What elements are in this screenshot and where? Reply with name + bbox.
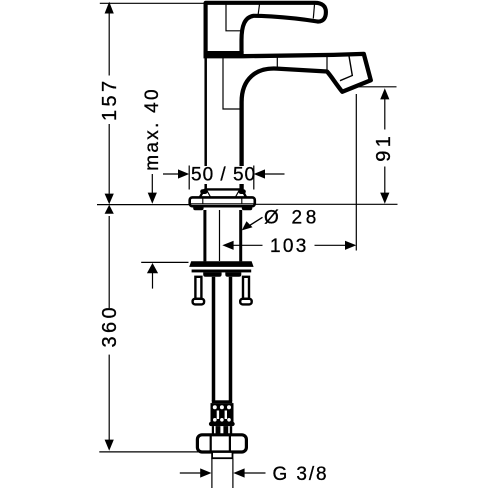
- spout tip ext line: [355, 94, 357, 251]
- escutcheon: [190, 197, 255, 206]
- svg-text:50 / 50: 50 / 50: [191, 165, 256, 186]
- dim 91 top tick: [357, 86, 397, 88]
- dim 91 bottom arrow: [380, 193, 389, 204]
- dim 50/50 right arrow: [264, 173, 285, 175]
- handle inner step vertical: [226, 5, 241, 31]
- svg-text:157: 157: [99, 77, 121, 121]
- dim 157 bottom arrow: [105, 194, 114, 205]
- stub ext line left: [211, 459, 213, 488]
- nut face lines: [210, 436, 212, 452]
- dim 360 line lower: [108, 355, 110, 440]
- dim 157 top arrow: [105, 2, 114, 14]
- spout tip inner line: [340, 56, 352, 81]
- under-counter arrow: [147, 263, 158, 273]
- escutcheon right tab: [242, 206, 253, 210]
- escutcheon left tab: [193, 206, 203, 210]
- deck left tick line: [141, 261, 188, 263]
- fitting band: [212, 400, 232, 403]
- counter line right: [255, 203, 398, 205]
- escutcheon inner lines: [191, 203, 254, 205]
- dim 91 top arrow: [380, 88, 389, 99]
- stud right foot: [240, 299, 252, 305]
- body cap bar: [204, 51, 244, 58]
- supply pipe left wall: [212, 277, 216, 401]
- svg-text:G 3/8: G 3/8: [273, 464, 329, 485]
- svg-text:360: 360: [99, 304, 121, 348]
- shank centerline: [219, 210, 221, 261]
- handle outline: [206, 3, 326, 56]
- spout thin vertical 2: [326, 57, 328, 72]
- dim 360 line upper: [108, 216, 110, 308]
- dia 28 leader: [244, 217, 262, 229]
- dim 103 left arrow: [222, 241, 233, 250]
- lower fitting: [212, 426, 232, 435]
- max40 arrow: [148, 193, 157, 204]
- dim 103 right arrow: [315, 244, 347, 246]
- G38 left arrow: [180, 472, 201, 474]
- body column right edge: [240, 102, 243, 190]
- svg-text:103: 103: [270, 236, 309, 257]
- shank right edge: [239, 210, 242, 261]
- bottom ref line: [99, 451, 204, 453]
- 50/50 text background: [191, 166, 253, 184]
- flange foot inner slants: [207, 191, 211, 198]
- stud right: [243, 277, 249, 299]
- dim 360 top arrow: [105, 205, 114, 214]
- stud left foot: [193, 299, 205, 305]
- spout outline: [242, 54, 371, 190]
- counter line left: [97, 204, 189, 206]
- knurl section: [211, 403, 234, 422]
- max40 arrow line: [151, 174, 153, 194]
- stud left: [195, 277, 201, 299]
- svg-text:max. 40: max. 40: [142, 87, 163, 171]
- 50/50 ext line left: [188, 166, 190, 190]
- flange foot trapezoid: [200, 189, 246, 197]
- body inner step: [223, 58, 240, 109]
- stub: [212, 452, 232, 458]
- shank left edge: [203, 210, 206, 261]
- dim 360 bottom arrow: [105, 440, 114, 451]
- deck second bar: [192, 270, 252, 273]
- stub ext line right: [232, 459, 234, 488]
- deck rubber foot left: [203, 272, 221, 276]
- dim 157 top tick line: [100, 2, 204, 4]
- spout thin vertical 1: [276, 58, 278, 69]
- flange shoulder knobs: [203, 189, 206, 194]
- svg-text:Ø 28: Ø 28: [264, 208, 320, 229]
- 50/50 ext line right: [253, 166, 255, 190]
- svg-text:91: 91: [373, 133, 395, 162]
- dim 157 line upper: [108, 13, 110, 76]
- bulge ring: [209, 422, 235, 426]
- supply pipe right wall: [229, 277, 233, 401]
- dim 157 line lower: [108, 124, 110, 194]
- deck rubber foot right: [225, 272, 241, 276]
- body column left edge: [204, 57, 207, 190]
- handle panel line left: [258, 4, 260, 15]
- nut G3/8: [197, 435, 246, 452]
- dim 50/50 left arrow: [163, 173, 180, 175]
- G38 right arrow: [233, 468, 244, 477]
- deck top bar: [189, 261, 253, 267]
- handle panel line right: [313, 4, 314, 18]
